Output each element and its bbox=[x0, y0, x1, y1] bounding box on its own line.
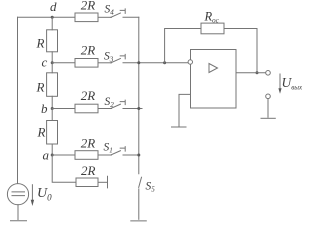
source U0 circle bbox=[7, 184, 28, 205]
wire S3 to op-amp input bbox=[123, 62, 188, 64]
svg-text:c: c bbox=[42, 55, 48, 70]
wire feedback left bbox=[165, 29, 201, 63]
svg-text:2R: 2R bbox=[81, 136, 96, 151]
junction feedback tap bbox=[163, 61, 166, 64]
junction bus-S1 bbox=[137, 154, 140, 157]
svg-text:S3: S3 bbox=[104, 51, 114, 64]
svg-text:S2: S2 bbox=[105, 96, 115, 109]
switch S1 bbox=[111, 151, 121, 155]
wire b to R bbox=[51, 109, 53, 121]
wire R to node a bbox=[51, 144, 53, 155]
ground (op-amp) bbox=[172, 126, 187, 128]
svg-text:S5: S5 bbox=[146, 181, 156, 194]
arrow Uout bbox=[279, 74, 281, 90]
source inner bars bbox=[12, 192, 25, 196]
wire R to node b bbox=[51, 96, 53, 108]
wire bus vertical bbox=[138, 17, 140, 174]
wire R to node c bbox=[51, 52, 53, 63]
ground (output) bbox=[261, 117, 275, 119]
switch S4 bbox=[111, 13, 121, 17]
svg-text:d: d bbox=[50, 0, 57, 14]
wire S4 to bus bbox=[123, 16, 139, 18]
wire top rail to node d and 2R bbox=[18, 16, 76, 18]
ground (S5) bbox=[131, 220, 147, 222]
junction output-feedback bbox=[256, 71, 259, 74]
svg-text:Uвых: Uвых bbox=[282, 75, 304, 92]
wire 2R to switch S4 bbox=[98, 16, 112, 18]
wire node a down to terminating 2R bbox=[52, 155, 76, 182]
op-amp inverting input terminal bbox=[188, 60, 192, 64]
wire node c to 2R bbox=[52, 62, 75, 64]
junction bus-S2 bbox=[137, 107, 140, 110]
node d bbox=[51, 16, 54, 19]
wire feedback right bbox=[224, 29, 257, 73]
wire 2R to switch S3 bbox=[98, 62, 112, 64]
wire 2R to switch S2 bbox=[98, 108, 112, 110]
resistor R (d-c) bbox=[47, 30, 58, 52]
resistor 2R (row b) bbox=[75, 104, 98, 113]
wire left rail bbox=[17, 17, 19, 183]
resistor 2R (row c) bbox=[75, 59, 98, 68]
wire d to R bbox=[51, 17, 53, 30]
svg-text:U0: U0 bbox=[37, 186, 52, 203]
junction bus-S3 bbox=[137, 61, 140, 64]
svg-text:R: R bbox=[36, 36, 45, 51]
switch S2 bbox=[111, 104, 121, 108]
svg-text:R: R bbox=[37, 125, 46, 140]
svg-text:2R: 2R bbox=[81, 88, 96, 103]
resistor R (c-b) bbox=[47, 73, 58, 97]
op-amp U1 body bbox=[191, 50, 237, 109]
ground (source) bbox=[11, 220, 27, 222]
output terminal lower bbox=[266, 94, 271, 99]
svg-text:S1: S1 bbox=[104, 142, 113, 155]
terminator end bar bbox=[107, 176, 109, 188]
arrow U0 bbox=[31, 185, 33, 201]
svg-text:a: a bbox=[43, 148, 50, 163]
wire S1 to bus bbox=[123, 154, 139, 156]
resistor R (b-a) bbox=[47, 121, 58, 145]
wire lower terminal to ground bbox=[267, 99, 269, 118]
switch S3 bbox=[111, 59, 121, 63]
resistor 2R (row d) bbox=[75, 13, 98, 22]
wire source to ground bbox=[17, 205, 19, 220]
svg-text:Rос: Rос bbox=[204, 9, 220, 24]
switch S5 blade bbox=[139, 177, 142, 187]
svg-text:2R: 2R bbox=[81, 163, 96, 178]
svg-text:2R: 2R bbox=[81, 0, 96, 13]
svg-text:b: b bbox=[41, 101, 48, 116]
wire 2R to end bar bbox=[98, 181, 108, 183]
wire S5 to ground bbox=[138, 189, 140, 219]
wire c to R bbox=[51, 63, 53, 73]
wire non-inverting input bbox=[179, 94, 191, 126]
node c bbox=[51, 61, 54, 64]
node a bbox=[51, 154, 54, 157]
op-amp triangle mark bbox=[209, 64, 218, 73]
svg-text:R: R bbox=[36, 80, 45, 95]
svg-text:S4: S4 bbox=[105, 4, 115, 17]
resistor 2R (row a) bbox=[75, 151, 98, 160]
resistor 2R (terminator) bbox=[76, 178, 98, 187]
wire node b to 2R bbox=[52, 108, 75, 110]
svg-text:2R: 2R bbox=[81, 43, 96, 58]
wire op-amp output bbox=[236, 72, 266, 74]
resistor Roc bbox=[201, 23, 224, 34]
output terminal upper bbox=[266, 71, 271, 76]
wire 2R to switch S1 bbox=[98, 154, 112, 156]
node b bbox=[51, 107, 54, 110]
wire S2 to bus bbox=[123, 108, 142, 110]
wire node a to 2R bbox=[52, 154, 75, 156]
